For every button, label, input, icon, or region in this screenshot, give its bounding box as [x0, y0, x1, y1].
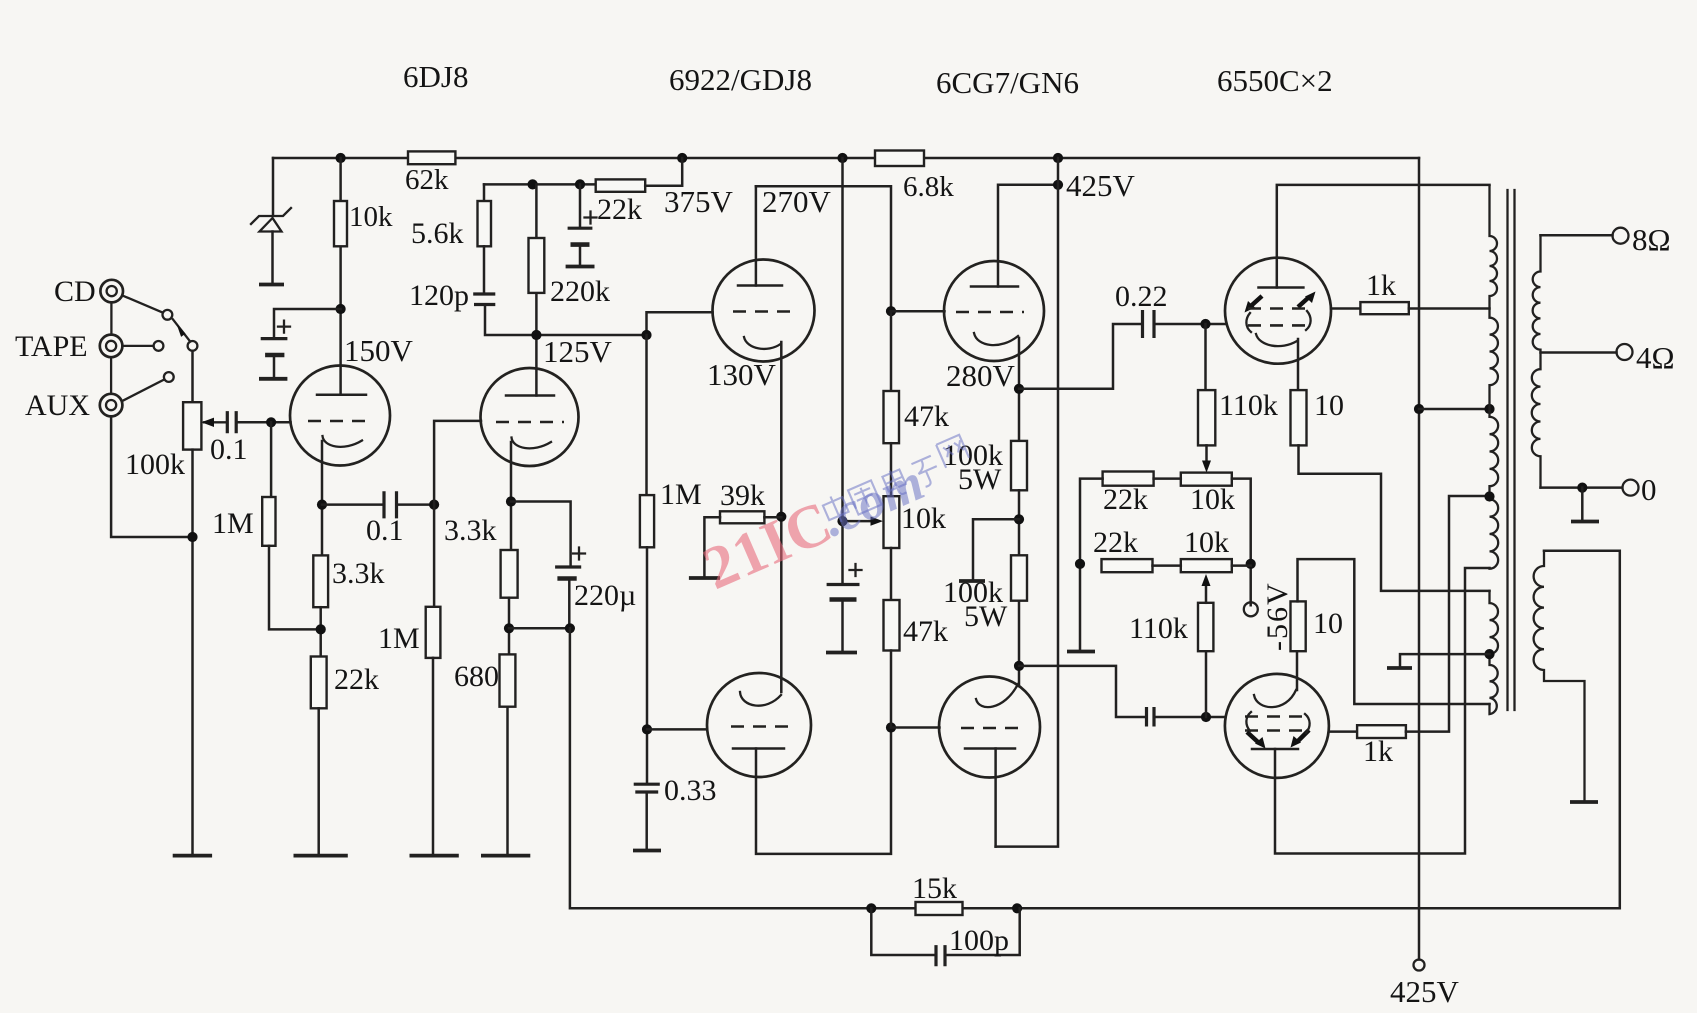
resistor 10k (first stage plate) — [334, 201, 347, 246]
wire secondary bottom to 0 — [1541, 486, 1623, 489]
wire top B+ bus — [273, 157, 1419, 160]
wire cathode node to coupling cap — [1019, 666, 1144, 717]
node dot CT/B+ — [1414, 404, 1424, 414]
screen grid V4 — [1248, 307, 1310, 310]
switch contact CD — [163, 310, 173, 320]
wire cathode to 220u riser — [511, 502, 571, 566]
wire decoupling line from bus — [841, 158, 844, 584]
resistor 62k — [408, 151, 455, 164]
wire V3a grid — [891, 310, 945, 313]
wiper arrow into 10k bias pot upper — [1205, 445, 1208, 462]
control grid V4 — [1248, 324, 1310, 327]
svg-text:10: 10 — [1314, 389, 1344, 422]
switch contact AUX — [164, 372, 174, 382]
svg-text:6550C×2: 6550C×2 — [1217, 63, 1333, 98]
beam electrode arrows V5 — [1247, 732, 1259, 743]
beam tetrode V5 6550 lower — [1225, 674, 1329, 778]
terminal 0 — [1623, 480, 1639, 496]
wire 0 ground stem — [1581, 488, 1584, 520]
node dot anode/220k/120p — [531, 330, 541, 340]
node dot V2b anode / V3b grid / 47k — [886, 722, 896, 732]
capacitor 220u electrolytic — [555, 565, 581, 568]
svg-text:15k: 15k — [912, 872, 957, 905]
ground of 100k junction — [959, 579, 985, 583]
resistor 3.3k V1b — [501, 550, 518, 598]
svg-text:6CG7/GN6: 6CG7/GN6 — [936, 65, 1079, 100]
cathode V5 — [1254, 690, 1296, 707]
wire anode V1b — [535, 293, 538, 396]
svg-text:280V: 280V — [946, 358, 1016, 393]
grid V2a — [733, 310, 797, 313]
cathode V1b — [512, 438, 552, 449]
svg-text:6922/GDJ8: 6922/GDJ8 — [669, 62, 812, 97]
wire 375V node rail — [484, 183, 596, 186]
node dot bus/6CG7 B+ line — [1053, 153, 1063, 163]
potentiometer 10k vertical — [884, 496, 900, 548]
resistor 1M grid leak — [270, 422, 273, 497]
triode V1a 6DJ8 — [290, 366, 390, 466]
anode plate V3b — [965, 747, 1015, 750]
wire V2a cathode to V2b cathode — [780, 342, 783, 692]
screen grid V5 — [1245, 729, 1307, 732]
resistor 47k upper — [890, 311, 893, 391]
wire 6CG7 B+ line — [996, 158, 1058, 847]
potentiometer 10k bias lower — [1181, 559, 1232, 572]
zener diode — [251, 208, 291, 224]
wire feedback mid to ground — [1400, 654, 1490, 666]
wiper arrow 10k — [843, 520, 872, 523]
potentiometer 10k bias upper — [1181, 473, 1232, 486]
resistor 15k — [916, 902, 963, 915]
anode plate V2b — [733, 747, 784, 750]
capacitor coupling lower 6550 — [1147, 707, 1155, 727]
svg-text:3.3k: 3.3k — [444, 514, 497, 547]
anode plate V1a — [317, 394, 366, 397]
svg-text:5W: 5W — [958, 463, 1002, 496]
node dot V1a cathode — [317, 500, 327, 510]
node dot grid/1M — [266, 417, 276, 427]
wire jack shield links — [110, 302, 113, 393]
cathode V2b — [740, 692, 781, 706]
resistor 6.8k — [875, 151, 924, 167]
resistor 680 — [500, 654, 516, 706]
svg-text:3.3k: 3.3k — [332, 557, 385, 590]
capacitor E1 electrolytic — [261, 337, 288, 340]
svg-text:22k: 22k — [1093, 526, 1138, 559]
node dot 220k top — [528, 179, 538, 189]
terminal -56V — [1244, 602, 1258, 616]
svg-text:220µ: 220µ — [574, 579, 636, 612]
node dot bus/100p left — [866, 903, 876, 913]
triode V2b 6922 — [707, 673, 811, 777]
svg-text:130V: 130V — [707, 357, 777, 392]
node dot bus/375V stub — [677, 153, 687, 163]
resistor 100k 5W lower — [1011, 555, 1027, 600]
resistor 39k — [720, 511, 764, 523]
wire V3b anode — [994, 749, 997, 847]
grid V1b — [496, 421, 564, 424]
svg-text:22k: 22k — [1103, 483, 1148, 516]
triode V2a 6922 — [713, 260, 815, 362]
node dot 0 terminal ground — [1577, 483, 1587, 493]
node A anode/cap junction — [336, 304, 346, 314]
wire V5 anode to primary bottom — [1275, 568, 1490, 854]
beam tetrode V4 6550 upper — [1225, 258, 1331, 364]
transformer core — [1508, 190, 1515, 710]
svg-text:110k: 110k — [1129, 612, 1188, 645]
cathode V3b — [976, 684, 1018, 707]
svg-text:0.1: 0.1 — [210, 433, 248, 466]
watermark 21IC.com — [694, 427, 983, 602]
wire center tap — [1419, 408, 1490, 411]
grid V2b — [731, 725, 793, 728]
anode plate V1b — [506, 394, 554, 397]
wire 1M bottom to cathode node — [269, 546, 321, 630]
wire V4 cathode to 10 — [1297, 339, 1300, 390]
wire cathode V1b down — [510, 442, 513, 550]
svg-text:39k: 39k — [720, 479, 765, 512]
node dot 3.3k/22k/feedback — [316, 624, 326, 634]
anode plate V4 — [1259, 286, 1304, 289]
ground below pot — [173, 854, 212, 858]
node dot V3b cathode — [1014, 661, 1024, 671]
triode V3b 6CG7 — [939, 677, 1040, 778]
wire V4 screen to 1k — [1331, 307, 1360, 310]
wire V5 screen to 1k — [1329, 730, 1357, 733]
svg-text:0.33: 0.33 — [664, 774, 717, 807]
wire 680 node to 220u node — [509, 627, 570, 630]
cathode V2a — [744, 337, 781, 349]
svg-text:270V: 270V — [762, 184, 832, 219]
node dot bias right — [1246, 559, 1256, 569]
node dot V3a grid — [886, 306, 896, 316]
ground of secondary — [1571, 520, 1599, 524]
svg-text:4Ω: 4Ω — [1636, 340, 1675, 375]
svg-text:120p: 120p — [409, 279, 469, 312]
svg-text:6DJ8: 6DJ8 — [403, 59, 468, 94]
wire 120p to anode node — [485, 305, 646, 336]
ground of output feedback winding — [1570, 800, 1598, 804]
wire secondary tap to 4ohm — [1541, 351, 1617, 354]
wire 22k to bus stub — [645, 158, 682, 186]
terminal 425V — [1414, 960, 1425, 971]
node dot anode/B+ line — [1053, 180, 1063, 190]
wire feedback bus with 15k — [570, 551, 1620, 909]
svg-text:425V: 425V — [1066, 168, 1136, 203]
grid V3b — [961, 727, 1019, 730]
node dot wiper/decoupling line — [837, 516, 847, 526]
wire 10k anode branch — [339, 158, 342, 395]
node dot V2b grid — [642, 724, 652, 734]
svg-text:100p: 100p — [949, 924, 1009, 957]
resistor 10 upper — [1291, 390, 1307, 445]
capacitor 0.1 input — [227, 411, 236, 433]
anode plate V3a — [971, 285, 1018, 288]
ground below 22k — [294, 854, 348, 858]
node dot bus/decoupling line — [837, 153, 847, 163]
svg-text:1k: 1k — [1366, 269, 1396, 302]
node dot pot/AUX — [187, 532, 197, 542]
resistor 22k bias upper — [1103, 472, 1154, 486]
svg-text:1k: 1k — [1363, 735, 1393, 768]
capacitor 0.22 — [1143, 310, 1155, 338]
resistor 1k upper — [1360, 302, 1408, 314]
resistor 47k lower — [884, 600, 900, 651]
wire AUX shield to pot bottom — [111, 416, 192, 537]
transformer output feedback winding — [1534, 551, 1585, 800]
capacitor 0.1 interstage — [384, 491, 397, 518]
svg-text:125V: 125V — [543, 334, 613, 369]
ground below 39k — [689, 576, 720, 580]
triode V3a 6CG7 — [944, 261, 1044, 361]
wire V5 cathode to 10 — [1296, 651, 1299, 690]
wire cathode to 0.22 — [1019, 324, 1140, 389]
wire V3a cathode down — [1018, 338, 1021, 441]
wire cap to tube1 grid — [238, 421, 290, 424]
switch pole and wiper arm — [188, 341, 198, 351]
wire V2b anode to driver node — [756, 728, 891, 854]
svg-text:680: 680 — [454, 660, 499, 693]
ground below 680 — [481, 854, 530, 858]
svg-text:100k: 100k — [125, 448, 185, 481]
potentiometer 100k — [183, 402, 201, 449]
svg-text:-56V: -56V — [1261, 581, 1294, 651]
capacitor E4 electrolytic — [827, 583, 860, 586]
wire 425V B+ drop — [1418, 158, 1421, 960]
svg-text:22k: 22k — [334, 663, 379, 696]
ground below E1 — [259, 377, 287, 381]
svg-text:CD: CD — [54, 275, 96, 308]
wire V3a anode to B+ — [998, 185, 1058, 287]
cathode V3a — [974, 333, 1018, 345]
svg-text:47k: 47k — [904, 400, 949, 433]
transformer secondary winding — [1532, 235, 1541, 487]
wire cap to lower grid node — [1156, 716, 1225, 719]
wire secondary to 8ohm — [1541, 234, 1613, 237]
anode plate V2a — [738, 284, 782, 287]
control grid V5 — [1245, 715, 1307, 718]
resistor 10 lower — [1291, 601, 1306, 651]
resistor 1M V2a grid — [645, 335, 648, 495]
svg-text:375V: 375V — [664, 184, 734, 219]
wire V3b grid — [891, 726, 940, 729]
node dot 220u bottom / feedback bus — [565, 623, 575, 633]
svg-text:0: 0 — [1641, 472, 1657, 507]
svg-text:5W: 5W — [964, 600, 1008, 633]
terminal 8 ohm — [1613, 228, 1629, 244]
wiper arrow into 10k bias pot lower — [1205, 586, 1208, 603]
resistor 5.6k — [483, 184, 486, 201]
wire cathode to 0.1 coupling — [322, 503, 382, 506]
svg-text:150V: 150V — [344, 333, 414, 368]
ground bias network — [1067, 650, 1095, 654]
node dot CT primary — [1484, 404, 1494, 414]
node dot bus/10k — [336, 153, 346, 163]
terminal 4 ohm — [1617, 344, 1633, 360]
transformer primary winding — [1490, 186, 1499, 568]
ground below E2 — [566, 265, 595, 269]
node dot V3a cathode — [1014, 384, 1024, 394]
node dot 100k junction — [1014, 514, 1024, 524]
svg-text:22k: 22k — [597, 193, 642, 226]
wire grid riser V1b — [434, 421, 481, 505]
node dot cathodes/39k — [776, 512, 786, 522]
wire bias row2 — [1153, 564, 1251, 567]
wiper arrow of 100k pot — [204, 421, 225, 423]
resistor 22k decoupling — [596, 179, 646, 191]
svg-text:5.6k: 5.6k — [411, 217, 464, 250]
svg-text:10k: 10k — [1184, 526, 1229, 559]
wire left bus drop to zener — [272, 158, 275, 215]
svg-text:10k: 10k — [349, 201, 393, 233]
resistor 110k lower — [1198, 603, 1213, 651]
svg-text:1M: 1M — [212, 507, 254, 540]
svg-text:0.22: 0.22 — [1115, 280, 1168, 313]
svg-text:0.1: 0.1 — [366, 514, 404, 547]
resistor 1k lower — [1357, 725, 1406, 738]
wire to bypass cap E1 — [274, 309, 341, 338]
wire V2b grid — [647, 728, 707, 731]
resistor 3.3k V1a cathode — [313, 555, 328, 607]
cathode V4 — [1256, 334, 1297, 346]
wire pole to volume pot — [191, 351, 194, 402]
capacitor 100p loop — [871, 908, 934, 955]
node dot V1b cathode — [506, 496, 516, 506]
resistor 100k 5W upper — [1011, 441, 1027, 490]
wire junction to ground — [973, 519, 1019, 579]
svg-text:47k: 47k — [903, 615, 948, 648]
switch contact TAPE — [154, 341, 164, 351]
ground below 0.33 — [633, 849, 661, 853]
svg-text:110k: 110k — [1219, 389, 1278, 422]
node dot V1b grid — [429, 500, 439, 510]
ground below 1M — [410, 854, 459, 858]
svg-text:6.8k: 6.8k — [903, 171, 954, 203]
svg-text:1M: 1M — [660, 478, 702, 511]
wire 0.1 to V1b grid node — [397, 503, 435, 506]
capacitor 120p — [473, 294, 495, 305]
svg-text:TAPE: TAPE — [15, 330, 88, 363]
node dot 6550 upper grid — [1200, 319, 1210, 329]
wire V4 anode to primary top — [1277, 185, 1490, 288]
resistor 22k V1a cathode — [311, 657, 327, 709]
wire V2a anode riser 270V — [755, 186, 758, 285]
svg-text:10k: 10k — [1190, 483, 1235, 516]
resistor 22k bias lower — [1102, 559, 1153, 572]
svg-text:1M: 1M — [378, 622, 420, 655]
resistor 110k upper — [1204, 324, 1207, 390]
resistor 220k — [535, 184, 538, 238]
node dot 3.3k/680 — [504, 623, 514, 633]
resistor 1M V1b grid — [433, 505, 436, 607]
anode plate V5 — [1252, 748, 1298, 751]
wire 10 to feedback winding top — [1299, 445, 1490, 591]
ground of feedback winding mid — [1387, 666, 1412, 670]
node dot V2a grid / 125V node — [641, 330, 651, 340]
capacitor E2 electrolytic — [579, 184, 582, 227]
wire 1k to UL tap — [1409, 307, 1490, 310]
node dot primary screen tap lower — [1484, 491, 1494, 501]
svg-text:425V: 425V — [1390, 974, 1460, 1009]
node dot bus/100p right — [1012, 903, 1022, 913]
triode V1b 6DJ8 — [481, 368, 579, 466]
wire 10 to feedback winding bottom — [1298, 559, 1490, 704]
wire bias row1 — [1080, 479, 1251, 650]
transformer cathode feedback winding — [1490, 591, 1499, 714]
grid V1a — [308, 420, 368, 423]
wire cathode V1a down — [321, 441, 324, 555]
node dot 6550 lower grid — [1201, 712, 1211, 722]
wire V2a grid riser — [647, 312, 713, 335]
ground below zener — [259, 283, 284, 287]
wire 270V to V3a grid line — [756, 186, 891, 311]
node dot E2 top — [575, 179, 585, 189]
beam electrode arrows V4 — [1252, 296, 1262, 305]
ground below E4 — [826, 651, 857, 655]
wire 0.22 to grid node — [1156, 323, 1225, 326]
node dot bias left — [1075, 559, 1085, 569]
svg-text:62k: 62k — [405, 164, 449, 196]
wire 1k to UL tap lower — [1406, 496, 1490, 732]
svg-text:10: 10 — [1313, 607, 1343, 640]
wire 39k left to ground — [704, 517, 720, 576]
svg-text:220k: 220k — [550, 275, 610, 308]
node dot feedback winding mid — [1484, 649, 1494, 659]
svg-text:8Ω: 8Ω — [1632, 222, 1671, 257]
svg-text:AUX: AUX — [25, 389, 90, 422]
cathode V1a — [323, 436, 363, 447]
capacitor 0.33 — [634, 784, 660, 792]
grid V3a — [956, 311, 1024, 314]
